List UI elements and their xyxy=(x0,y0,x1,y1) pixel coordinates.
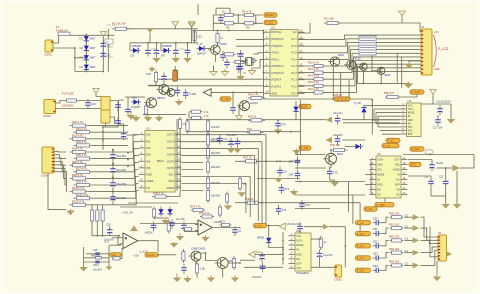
wire ladder row 3 xyxy=(93,144,129,146)
capacitor C34 xyxy=(183,89,189,99)
junction MCU pin 1 xyxy=(263,32,265,34)
svg-text:IN-: IN- xyxy=(377,179,380,182)
wire c47 to arrow xyxy=(437,167,453,169)
svg-text:S9013: S9013 xyxy=(157,96,165,100)
svg-text:C50: C50 xyxy=(373,216,378,220)
wire rail y195 xyxy=(295,194,365,196)
resistor R63 xyxy=(389,247,404,254)
svg-text:IN5: IN5 xyxy=(146,166,151,170)
capacitor C16b xyxy=(115,117,121,127)
svg-text:MODE: MODE xyxy=(377,174,385,177)
wire rail y178 xyxy=(257,178,300,180)
transistor Q4 xyxy=(357,63,367,70)
junction C20 xyxy=(112,149,114,151)
wire 12v row xyxy=(255,253,283,255)
resistor R82 xyxy=(206,119,209,134)
wire v213 xyxy=(212,15,214,31)
capacitor C65 xyxy=(95,253,99,255)
wire r67 up xyxy=(121,248,123,258)
capacitor C16 xyxy=(115,101,121,111)
relay K1 lower xyxy=(101,110,110,123)
wire pwrB stub xyxy=(191,29,193,43)
junction xyxy=(263,30,265,32)
wire to arrow xyxy=(460,167,474,169)
wire F2 out xyxy=(77,100,102,102)
junction C21 xyxy=(112,163,114,165)
wire rail y30 xyxy=(192,30,263,32)
junction v333 xyxy=(332,98,334,100)
wire Q4 base xyxy=(355,66,360,68)
svg-text:12V: 12V xyxy=(256,251,261,254)
resistor R6 xyxy=(243,22,256,25)
junction xyxy=(344,245,346,247)
svg-text:R28 4.7k: R28 4.7k xyxy=(72,173,83,177)
svg-text:IN4: IN4 xyxy=(146,159,151,163)
wire U4 pin6 xyxy=(376,122,400,124)
ground G1 xyxy=(152,57,160,63)
wire ladder row 12 xyxy=(89,204,129,206)
svg-text:P_SPK: P_SPK xyxy=(376,203,385,207)
svg-text:P_O2: P_O2 xyxy=(357,232,364,236)
wire rail row2 xyxy=(213,22,263,24)
wire left drop xyxy=(107,44,109,72)
wire bus vert B xyxy=(179,119,181,191)
wire D5 feed xyxy=(129,43,131,51)
junction bridge mid xyxy=(74,57,76,59)
junction U5 pin 2 xyxy=(370,164,372,166)
wire U4 pin2 xyxy=(374,108,400,110)
resistor R20 xyxy=(70,120,89,127)
junction xyxy=(102,139,104,141)
svg-text:CON2: CON2 xyxy=(44,52,52,56)
wire row1 to arrow xyxy=(405,216,413,218)
wire cap column TL xyxy=(102,39,104,72)
ground G22 xyxy=(292,149,300,155)
wire u4 v374 xyxy=(373,109,375,121)
wire rail y202 xyxy=(235,202,360,204)
resistor R68 xyxy=(182,249,185,263)
svg-text:SCL: SCL xyxy=(169,173,175,177)
junction xyxy=(127,166,129,168)
svg-text:OUT+: OUT+ xyxy=(377,159,384,162)
svg-text:P_V2: P_V2 xyxy=(383,144,390,148)
svg-text:D1: D1 xyxy=(79,37,83,41)
wire U4 pin1 xyxy=(372,104,400,106)
svg-text:GND: GND xyxy=(146,173,152,177)
svg-text:C9: C9 xyxy=(283,170,287,174)
wire u7b in2 xyxy=(184,231,198,233)
wire C21 leg xyxy=(112,175,114,177)
svg-text:R43 1k: R43 1k xyxy=(248,115,257,119)
svg-text:BEEP: BEEP xyxy=(300,105,307,109)
ground G35 xyxy=(231,276,239,283)
resistor R77 xyxy=(218,205,221,218)
wire C32 top xyxy=(127,97,129,105)
wire q11 to q12 xyxy=(201,253,218,261)
svg-text:J5: J5 xyxy=(438,231,441,235)
svg-text:CON2: CON2 xyxy=(43,114,51,118)
wire J3 pin 4 fan xyxy=(54,162,66,172)
wire ladder to U3 pin 8 xyxy=(128,184,139,199)
port arrow O5 xyxy=(413,263,420,269)
port arrow 12V xyxy=(249,251,255,257)
wire arrow to J6 bus xyxy=(329,226,345,228)
svg-text:10u/16V: 10u/16V xyxy=(116,196,126,200)
wire to opamp plus2 xyxy=(109,244,121,246)
junction xyxy=(102,126,104,128)
wire U6 bus xyxy=(282,232,284,265)
svg-text:P_O1: P_O1 xyxy=(357,221,364,225)
fuse F2 xyxy=(67,99,77,102)
svg-text:473: 473 xyxy=(282,208,287,212)
wire opto row2 xyxy=(84,257,109,259)
wire long v250 xyxy=(249,177,251,218)
capacitor C46 xyxy=(435,116,441,126)
wire ladder row 1 xyxy=(93,131,129,133)
wire ladder to U3 pin 2 xyxy=(128,142,139,159)
svg-text:10A/250V: 10A/250V xyxy=(62,103,74,107)
capacitor C33 xyxy=(175,87,181,97)
diode ZD1 xyxy=(293,104,298,114)
net label RESET xyxy=(264,13,277,17)
svg-text:IN0: IN0 xyxy=(146,133,151,137)
diode D3 xyxy=(79,53,96,63)
net label OUT1 xyxy=(355,221,370,225)
wire out jog xyxy=(239,228,241,230)
wire c45-c46 xyxy=(437,115,439,118)
wire rail under transistors xyxy=(358,82,411,84)
wire rail to pin1 xyxy=(263,31,265,34)
svg-text:IN: IN xyxy=(397,174,400,177)
wire Q10 e down xyxy=(330,164,332,168)
wire rp rail xyxy=(92,235,118,237)
ground G25 xyxy=(274,177,282,183)
capacitor C12 xyxy=(238,50,244,60)
wire top joiner leg2 xyxy=(229,8,231,15)
svg-text:10k/1W: 10k/1W xyxy=(211,140,220,143)
capacitor C72 xyxy=(230,104,236,114)
wire c48 top xyxy=(430,176,432,178)
wire row5 to arrow xyxy=(405,264,413,266)
capacitor C3 xyxy=(145,47,151,57)
svg-text:BYP: BYP xyxy=(408,134,413,136)
svg-text:SD: SD xyxy=(396,189,400,192)
wire u5 in2 xyxy=(365,184,370,186)
svg-text:CREF: CREF xyxy=(146,179,154,183)
svg-text:473: 473 xyxy=(285,187,290,191)
svg-text:SD: SD xyxy=(377,194,381,197)
port arrow O1 xyxy=(413,214,420,220)
wire out4 long xyxy=(203,155,255,157)
svg-text:OUT5: OUT5 xyxy=(167,159,175,163)
resistor R29 xyxy=(74,180,93,187)
junction y161a xyxy=(276,160,278,162)
svg-text:10u/16V: 10u/16V xyxy=(116,154,126,158)
wire row1 step xyxy=(382,217,389,223)
svg-text:R50 470: R50 470 xyxy=(384,91,395,95)
wire top speaker rail xyxy=(403,154,474,156)
wire ladder row 10 xyxy=(89,191,129,193)
wire GND long rail xyxy=(211,91,263,93)
resistor R4 xyxy=(242,9,256,16)
svg-text:OUT2: OUT2 xyxy=(167,139,175,143)
resistor R23 xyxy=(74,140,93,147)
power U4 xyxy=(430,90,436,96)
wire jog3 xyxy=(320,238,322,241)
wire Q5 down xyxy=(380,75,382,84)
resistor R33 xyxy=(178,117,187,131)
junction xyxy=(112,163,114,165)
svg-text:VS: VS xyxy=(146,186,150,190)
svg-text:R64 103: R64 103 xyxy=(389,260,400,264)
svg-text:R60 103: R60 103 xyxy=(389,211,400,215)
svg-text:F2 FUSE: F2 FUSE xyxy=(62,92,74,96)
svg-text:9012: 9012 xyxy=(338,53,344,57)
wire row3 step xyxy=(382,240,389,245)
resistor R8 xyxy=(223,53,236,56)
svg-text:+: + xyxy=(125,236,127,240)
wire row5 step xyxy=(382,265,389,270)
wire Q4 down xyxy=(363,70,365,83)
net label P_AUD xyxy=(410,90,424,94)
svg-text:AGND: AGND xyxy=(393,169,400,172)
wire long v360 xyxy=(359,203,361,232)
svg-text:104: 104 xyxy=(91,102,96,106)
ground G10 xyxy=(403,81,413,88)
ground G4 xyxy=(148,66,155,72)
svg-text:ADDR: ADDR xyxy=(166,186,174,190)
wire spk right drop xyxy=(473,155,475,169)
wire out1 long xyxy=(203,134,266,136)
svg-text:(INT0)P3.2: (INT0)P3.2 xyxy=(271,64,284,68)
svg-text:NC: NC xyxy=(396,179,400,182)
ground G12 xyxy=(66,209,74,215)
wire d9 link xyxy=(345,146,353,148)
svg-text:P1.0: P1.0 xyxy=(292,85,298,89)
wire v349 down xyxy=(348,79,350,99)
junction xyxy=(261,254,263,256)
svg-text:IN2: IN2 xyxy=(146,146,151,150)
wire c48 gnd xyxy=(430,188,432,197)
svg-text:150: 150 xyxy=(197,34,202,38)
wire J4 fan tail xyxy=(351,64,353,71)
relay K1 upper xyxy=(101,97,110,111)
capacitor C30 xyxy=(161,73,167,83)
wire pwr stem TR xyxy=(401,19,403,24)
wire opto row1 xyxy=(86,253,109,255)
junction U5 pin 4 xyxy=(370,174,372,176)
wire MCU left bus xyxy=(263,33,265,92)
wire v333 down xyxy=(332,66,334,99)
junction xyxy=(176,134,178,136)
diode ZD3 xyxy=(266,235,271,245)
svg-text:CON2: CON2 xyxy=(334,277,342,281)
svg-text:R46 10k: R46 10k xyxy=(330,143,341,147)
wire opamp minus xyxy=(112,237,120,239)
wire rail y120 xyxy=(186,119,326,121)
net label box AC220 xyxy=(105,39,113,44)
wire pwr to relay xyxy=(96,93,101,97)
junction xyxy=(217,30,219,32)
svg-text:4007: 4007 xyxy=(90,65,96,69)
resistor R7 xyxy=(216,31,224,45)
capacitor C70 xyxy=(232,226,241,236)
wire rp1b top xyxy=(96,205,98,210)
transistor Q12 xyxy=(215,258,229,269)
svg-text:OUT4: OUT4 xyxy=(167,153,175,157)
crystal Y1 xyxy=(246,58,254,66)
svg-text:C54: C54 xyxy=(373,264,378,268)
svg-text:10k/1W: 10k/1W xyxy=(211,194,221,198)
wire MCU P1 pin 11 to J4 xyxy=(298,64,421,92)
junction C22 xyxy=(112,177,114,179)
svg-text:VO2: VO2 xyxy=(408,131,413,133)
junction U6 pin6 xyxy=(282,258,284,260)
resistor R43 xyxy=(248,115,265,122)
wire ac220 row xyxy=(158,254,176,256)
svg-text:P_O5: P_O5 xyxy=(357,269,364,273)
ground G39 xyxy=(170,242,178,248)
wire GND rail xyxy=(264,98,335,100)
wire ladder to U3 pin 4 xyxy=(128,156,139,172)
svg-text:C53: C53 xyxy=(373,252,378,256)
resistor R73 xyxy=(184,228,193,231)
capacitor C71 xyxy=(169,219,175,229)
capacitor C23 xyxy=(110,193,126,203)
svg-text:VO1: VO1 xyxy=(377,169,382,172)
resistor R14 xyxy=(308,74,325,81)
resistor R34 xyxy=(206,132,220,147)
capacitor C39 xyxy=(289,157,301,167)
wire row2 step xyxy=(382,228,389,234)
capacitor C21 xyxy=(110,165,126,175)
power junction triangle xyxy=(147,29,153,33)
wire opto right rail xyxy=(108,246,110,267)
wire relay bottom drop xyxy=(105,123,107,127)
svg-text:473: 473 xyxy=(333,171,338,175)
diode D7 xyxy=(197,42,207,55)
svg-text:D6: D6 xyxy=(161,53,165,57)
power opamp xyxy=(131,226,137,230)
resistor R24 xyxy=(70,147,89,154)
wire ladder row 5 xyxy=(93,158,129,160)
wire zd3 to bus xyxy=(269,245,283,247)
wire q11 e down xyxy=(195,261,197,264)
wire zd2 link xyxy=(364,104,372,106)
svg-text:C51: C51 xyxy=(373,227,378,231)
power VCC B xyxy=(188,22,194,29)
capacitor C63 xyxy=(260,262,266,272)
svg-text:+12V: +12V xyxy=(133,254,139,257)
svg-text:(T1)P3.5: (T1)P3.5 xyxy=(271,85,281,89)
svg-text:9012: 9012 xyxy=(385,73,391,77)
resistor R83 xyxy=(206,133,209,148)
svg-text:(TXD)P3.1: (TXD)P3.1 xyxy=(271,44,284,48)
connector J1 AC input xyxy=(44,40,53,56)
svg-text:R15 4.7k: R15 4.7k xyxy=(308,80,319,84)
capacitor C35 xyxy=(275,120,286,130)
wire v397 xyxy=(396,53,398,83)
wire u5 to label xyxy=(384,198,386,202)
wire top stub xyxy=(197,4,199,15)
wire U3 out row 5 xyxy=(182,162,204,164)
svg-text:1u: 1u xyxy=(238,229,241,233)
junction xyxy=(175,42,177,44)
wire O1 to J5 xyxy=(421,217,438,237)
diode D9 xyxy=(353,144,363,149)
junction xyxy=(207,131,209,133)
junction xyxy=(371,105,373,107)
port arrow IN_B xyxy=(326,137,333,143)
wire C20 leg xyxy=(112,161,114,163)
wire ctrl row xyxy=(267,225,280,227)
capacitor C43 xyxy=(279,184,290,194)
svg-text:R13 4.7k: R13 4.7k xyxy=(308,67,319,71)
wire bus vert A xyxy=(176,119,178,191)
net label P_V2 xyxy=(382,144,399,148)
svg-text:R20 4.7k: R20 4.7k xyxy=(72,120,83,124)
wire ladder row 8 xyxy=(89,177,129,179)
wire U4 pin5 xyxy=(372,119,400,121)
net label SPK1 xyxy=(410,147,424,151)
wire rp1a top xyxy=(91,205,93,210)
wire ladder row 0 xyxy=(89,125,129,127)
ground G17 xyxy=(155,115,163,122)
wire rail y97 xyxy=(125,96,145,98)
capacitor C37 xyxy=(335,135,341,145)
svg-text:C22: C22 xyxy=(439,176,444,179)
resistor R81 xyxy=(186,119,189,134)
junction xyxy=(370,164,372,166)
wire O3 to J5 xyxy=(421,240,438,243)
wire rail y114 xyxy=(143,113,186,115)
fuse F1 xyxy=(58,32,70,35)
resistor R45 power xyxy=(333,93,350,101)
svg-text:47: 47 xyxy=(323,241,327,245)
wire J3 pin 3 fan xyxy=(54,158,66,165)
wire rp1b bot xyxy=(96,221,98,236)
junction y120 xyxy=(277,119,279,121)
svg-text:RESET: RESET xyxy=(265,13,274,17)
wire zd2 bot xyxy=(363,115,365,120)
wire xtal caps mid xyxy=(241,61,246,63)
svg-text:D5: D5 xyxy=(131,53,135,57)
resistor R35 xyxy=(206,146,220,161)
svg-text:10u/6V: 10u/6V xyxy=(436,162,444,165)
junction xyxy=(127,159,129,161)
capacitor C42 xyxy=(277,167,287,177)
wire u4 v376 xyxy=(375,113,377,124)
net label AC220 xyxy=(145,253,158,257)
svg-text:10u/16V: 10u/16V xyxy=(227,134,237,137)
port arrow IN_A xyxy=(326,117,333,123)
wire ADDR row xyxy=(182,190,204,192)
ground G37 xyxy=(201,235,209,242)
port arrow O4 xyxy=(413,250,420,256)
junction U4 bus top xyxy=(371,99,373,101)
junction xyxy=(445,167,447,169)
svg-text:10u/16V: 10u/16V xyxy=(252,276,262,279)
resistor R49 xyxy=(238,176,247,191)
capacitor C9 xyxy=(220,51,226,61)
svg-text:473: 473 xyxy=(223,138,228,142)
wire ladder to U3 pin 7 xyxy=(128,177,139,192)
svg-text:C65: C65 xyxy=(93,249,98,252)
svg-text:NC: NC xyxy=(396,194,400,197)
svg-text:GND: GND xyxy=(434,67,440,71)
wire rp1c top xyxy=(102,205,104,210)
capacitor C45 xyxy=(437,105,443,115)
